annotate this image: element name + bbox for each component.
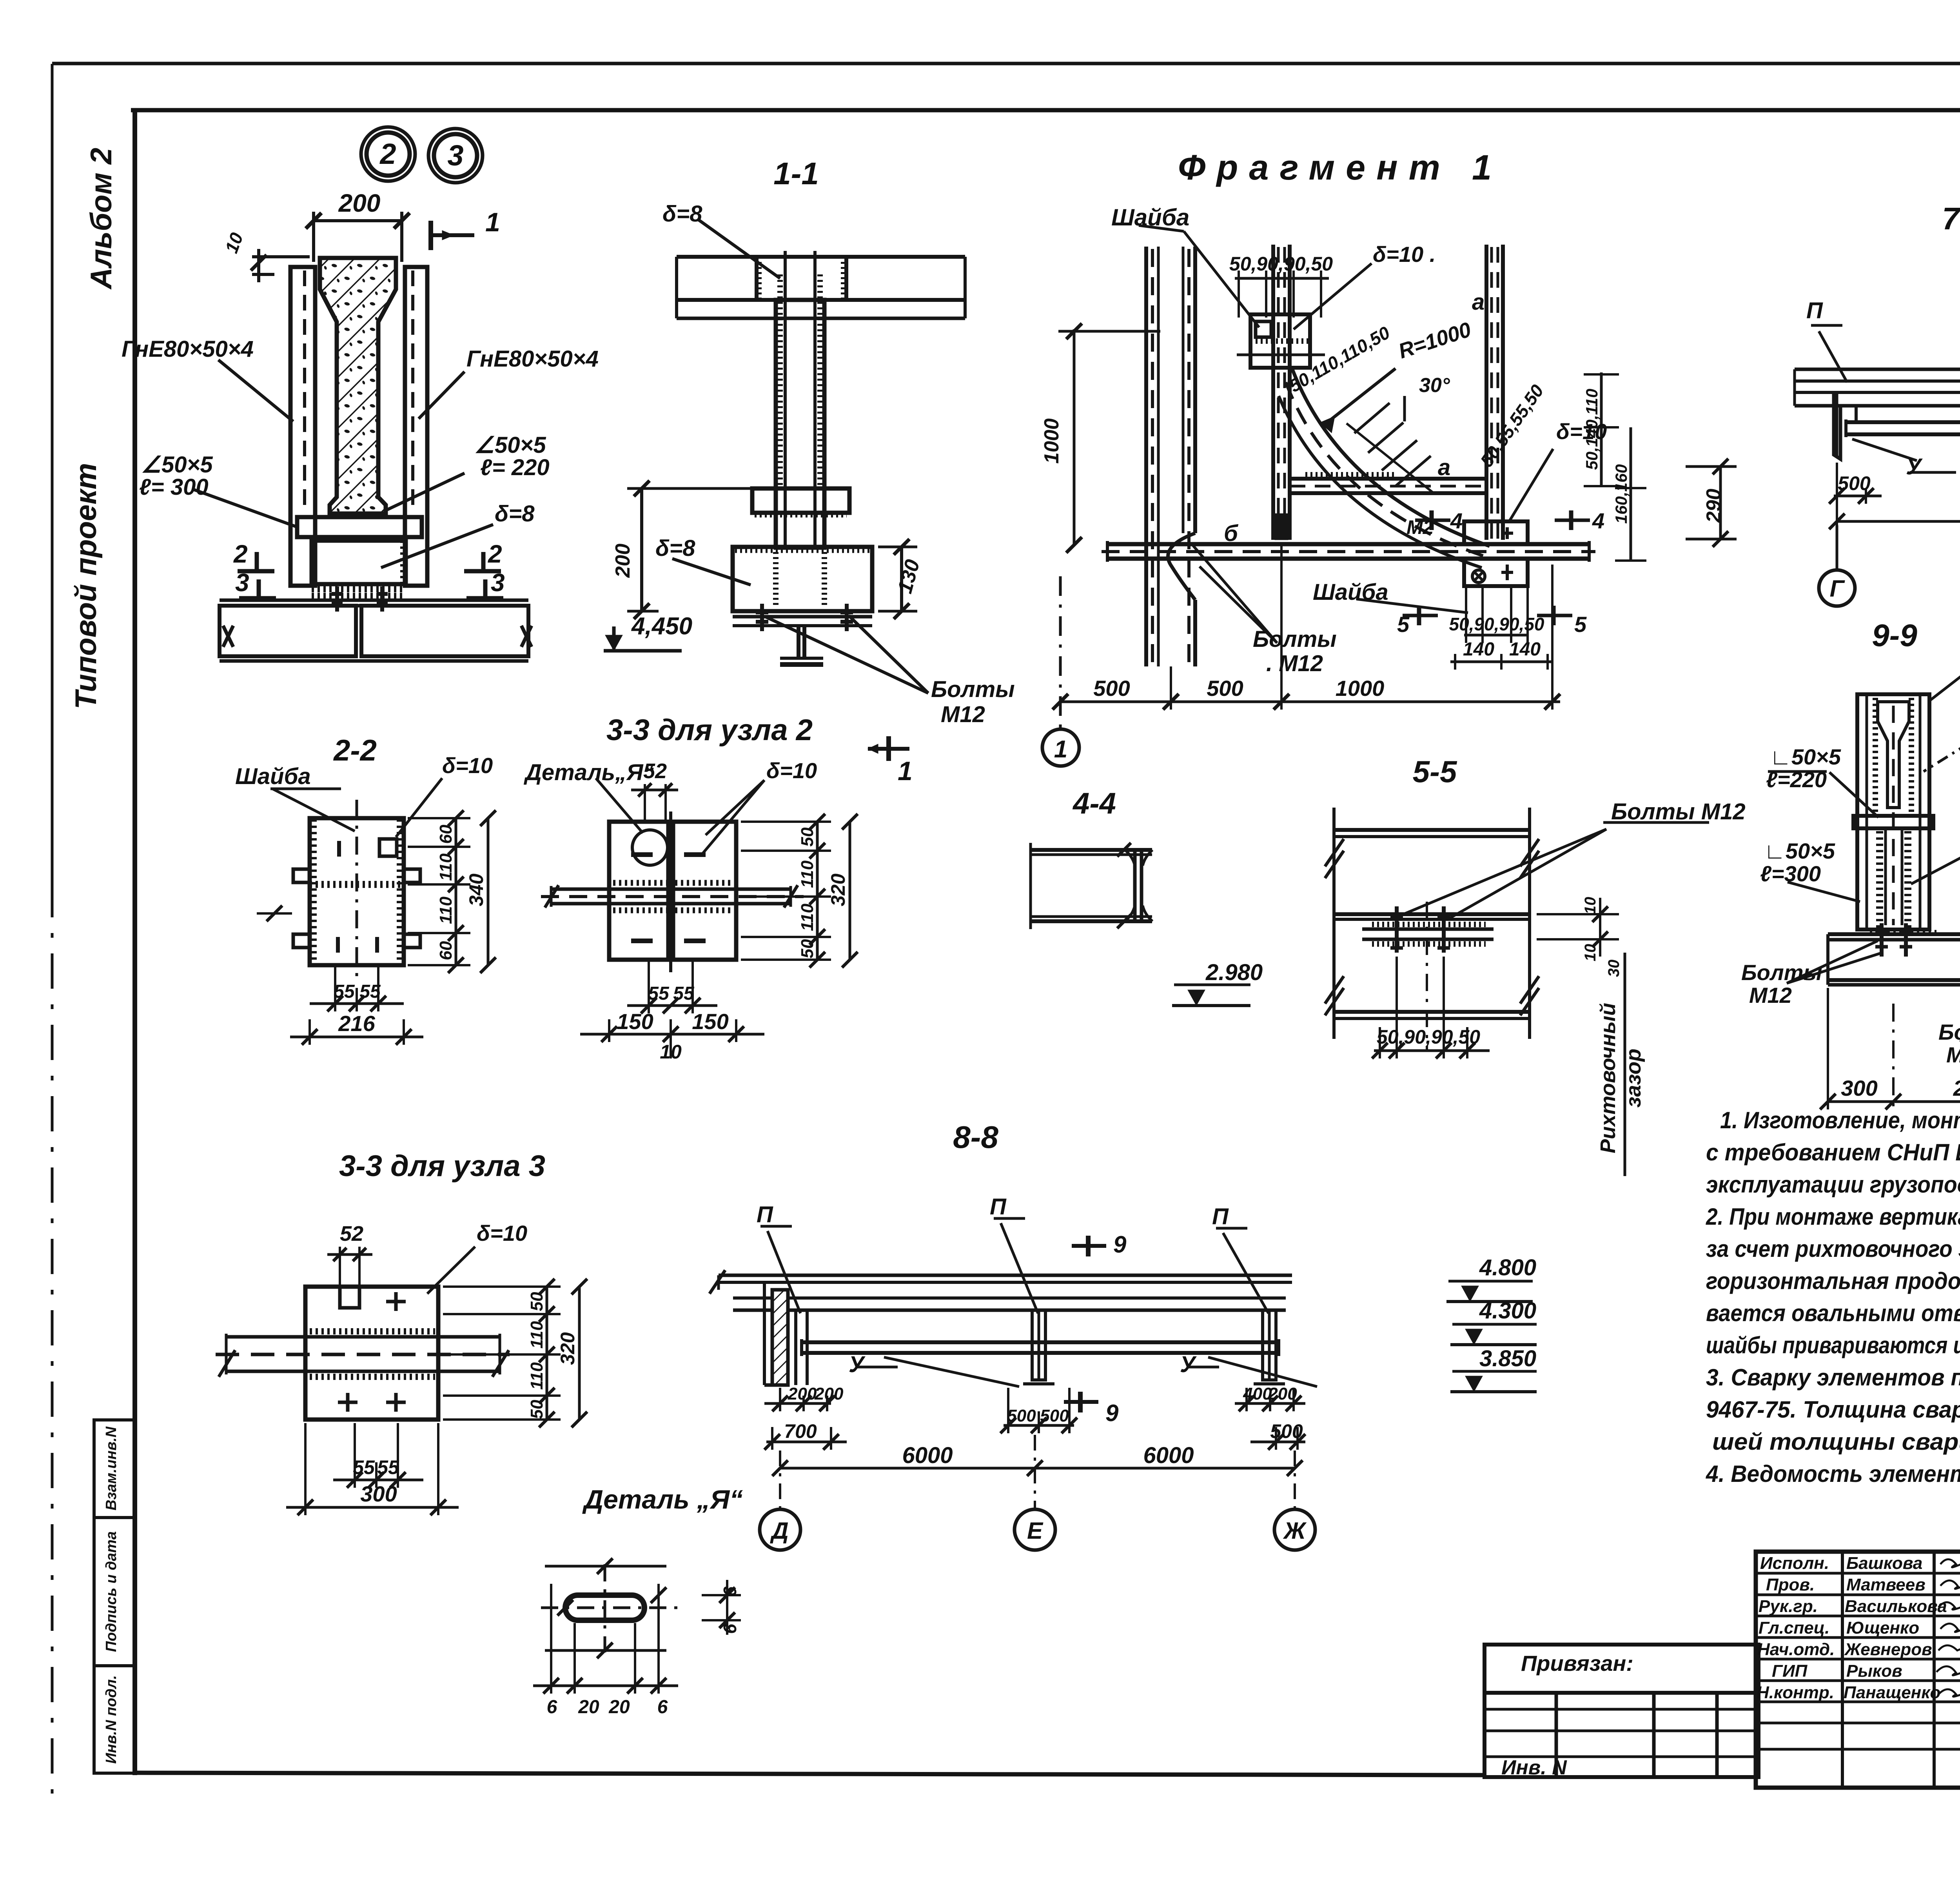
svg-text:110: 110 xyxy=(527,1321,546,1349)
svg-text:4,450: 4,450 xyxy=(631,613,692,640)
svg-text:Шайба: Шайба xyxy=(1111,204,1189,231)
svg-text:М12: М12 xyxy=(941,702,985,727)
svg-text:50: 50 xyxy=(527,1292,546,1311)
svg-text:δ=10 .: δ=10 . xyxy=(1373,242,1436,267)
svg-text:Рук.гр.: Рук.гр. xyxy=(1759,1597,1818,1616)
svg-text:5-5: 5-5 xyxy=(1413,754,1457,789)
svg-text:1000: 1000 xyxy=(1336,676,1385,701)
svg-text:6000: 6000 xyxy=(902,1443,953,1468)
svg-text:δ=10: δ=10 xyxy=(442,753,493,778)
svg-text:Исполн.: Исполн. xyxy=(1760,1554,1829,1573)
svg-text:400: 400 xyxy=(1243,1384,1272,1403)
svg-text:a: a xyxy=(1438,455,1450,480)
svg-text:55: 55 xyxy=(334,981,355,1002)
svg-text:200: 200 xyxy=(1268,1384,1297,1403)
svg-text:300: 300 xyxy=(360,1481,397,1506)
svg-text:ℓ=220: ℓ=220 xyxy=(1766,767,1827,792)
svg-text:М2: М2 xyxy=(1406,516,1434,538)
svg-text:200: 200 xyxy=(788,1384,817,1403)
svg-text:R=1000: R=1000 xyxy=(1396,318,1474,363)
svg-text:10: 10 xyxy=(660,1041,682,1063)
svg-text:1: 1 xyxy=(485,207,500,237)
svg-text:Привязан:: Привязан: xyxy=(1521,1651,1633,1676)
svg-text:500: 500 xyxy=(1007,1406,1036,1425)
svg-text:55: 55 xyxy=(353,1456,375,1478)
svg-text:шей толщины свариваемых эле: шей толщины свариваемых элементов. xyxy=(1712,1429,1960,1455)
svg-text:52: 52 xyxy=(643,759,667,783)
svg-text:горизонтальная продольная и по: горизонтальная продольная и поперечная р… xyxy=(1706,1268,1960,1294)
svg-text:60: 60 xyxy=(436,941,456,960)
svg-text:Василькова: Василькова xyxy=(1845,1597,1947,1616)
svg-text:Болты: Болты xyxy=(1741,960,1822,985)
svg-text:П: П xyxy=(1806,298,1823,323)
svg-text:50,90,90,50: 50,90,90,50 xyxy=(1377,1026,1480,1048)
svg-text:Деталь„Я“: Деталь„Я“ xyxy=(523,760,654,785)
svg-text:4.800: 4.800 xyxy=(1479,1255,1536,1280)
svg-text:зазор: зазор xyxy=(1622,1049,1645,1107)
svg-text:Пров.: Пров. xyxy=(1766,1575,1815,1594)
svg-text:30: 30 xyxy=(1605,960,1622,977)
svg-text:3.850: 3.850 xyxy=(1479,1346,1536,1371)
svg-text:М12: М12 xyxy=(1749,983,1792,1008)
svg-text:500: 500 xyxy=(1040,1406,1069,1425)
svg-text:Фрагмент 1: Фрагмент 1 xyxy=(1178,148,1492,187)
svg-text:Альбом 2: Альбом 2 xyxy=(85,148,118,290)
svg-text:320: 320 xyxy=(557,1332,579,1365)
svg-text:∟50×5: ∟50×5 xyxy=(1770,744,1841,769)
svg-text:130: 130 xyxy=(893,557,924,596)
svg-text:110: 110 xyxy=(436,853,456,881)
svg-text:110: 110 xyxy=(436,896,456,924)
svg-text:δ=10: δ=10 xyxy=(477,1221,527,1245)
svg-text:150: 150 xyxy=(692,1009,728,1034)
svg-text:6000: 6000 xyxy=(1143,1443,1194,1468)
svg-text:П: П xyxy=(1212,1204,1229,1229)
svg-text:3-3 для узла 3: 3-3 для узла 3 xyxy=(339,1149,545,1183)
svg-text:4. Ведомость элементов см. ли: 4. Ведомость элементов см. лист КМ-9. xyxy=(1706,1461,1960,1487)
svg-text:ℓ=300: ℓ=300 xyxy=(1760,861,1821,886)
svg-text:6: 6 xyxy=(720,1587,740,1597)
svg-text:У: У xyxy=(1906,454,1923,479)
svg-text:50,110,110,50: 50,110,110,50 xyxy=(1286,322,1394,396)
svg-text:1: 1 xyxy=(1054,736,1067,763)
svg-text:Башкова: Башкова xyxy=(1846,1554,1922,1573)
svg-text:Типовой проект: Типовой проект xyxy=(69,463,103,709)
svg-text:Инв. N: Инв. N xyxy=(1501,1756,1567,1779)
svg-text:∠50×5: ∠50×5 xyxy=(141,452,213,477)
svg-text:2. При монтаже вертикальная ри: 2. При монтаже вертикальная рихтовка пут… xyxy=(1706,1204,1960,1230)
svg-text:Матвеев: Матвеев xyxy=(1846,1575,1926,1594)
svg-text:110: 110 xyxy=(798,860,817,888)
svg-text:a: a xyxy=(1472,289,1485,315)
svg-text:200: 200 xyxy=(612,544,634,578)
svg-text:6: 6 xyxy=(720,1624,740,1634)
svg-text:Жевнеров: Жевнеров xyxy=(1844,1640,1932,1659)
svg-text:Взам.инв.N: Взам.инв.N xyxy=(103,1426,120,1510)
svg-text:55: 55 xyxy=(377,1456,399,1478)
svg-text:Болты М12: Болты М12 xyxy=(1611,799,1746,824)
svg-text:У: У xyxy=(1180,1352,1197,1377)
svg-text:Гл.спец.: Гл.спец. xyxy=(1759,1618,1829,1638)
svg-text:Подпись и дата: Подпись и дата xyxy=(103,1531,120,1652)
svg-text:3-3 для узла 2: 3-3 для узла 2 xyxy=(606,713,813,747)
svg-text:Д: Д xyxy=(769,1518,788,1544)
svg-text:6: 6 xyxy=(657,1697,668,1717)
svg-text:340: 340 xyxy=(465,873,487,906)
svg-text:Инв.N подл.: Инв.N подл. xyxy=(103,1675,120,1764)
svg-text:Рихтовочный: Рихтовочный xyxy=(1596,1003,1620,1153)
svg-text:δ=8: δ=8 xyxy=(655,536,695,561)
svg-text:20: 20 xyxy=(578,1697,599,1717)
svg-text:50,90,90,50: 50,90,90,50 xyxy=(1229,253,1333,275)
svg-text:∠50×5: ∠50×5 xyxy=(474,432,546,458)
svg-text:Рыков: Рыков xyxy=(1846,1661,1902,1681)
svg-text:110: 110 xyxy=(798,903,817,931)
svg-text:Шайба: Шайба xyxy=(1313,579,1388,605)
svg-text:55: 55 xyxy=(648,983,670,1004)
svg-text:60: 60 xyxy=(436,824,456,844)
svg-text:ГнЕ80×50×4: ГнЕ80×50×4 xyxy=(122,336,254,362)
svg-text:ГИП: ГИП xyxy=(1772,1661,1808,1681)
svg-text:9: 9 xyxy=(1113,1231,1127,1258)
svg-text:200: 200 xyxy=(814,1384,844,1403)
svg-text:с требованием СНиП Ш-18-75 и: с требованием СНиП Ш-18-75 и „Правил уст… xyxy=(1706,1139,1960,1166)
svg-text:М12: М12 xyxy=(1946,1042,1960,1067)
svg-text:9-9: 9-9 xyxy=(1872,618,1917,653)
svg-text:1-1: 1-1 xyxy=(773,156,819,191)
svg-text:3: 3 xyxy=(235,568,249,597)
svg-text:500: 500 xyxy=(1838,472,1871,494)
svg-text:50: 50 xyxy=(527,1400,546,1419)
svg-text:55: 55 xyxy=(673,983,695,1004)
svg-text:1: 1 xyxy=(898,756,913,786)
svg-text:300: 300 xyxy=(1841,1076,1877,1100)
svg-text:ℓ= 220: ℓ= 220 xyxy=(480,455,550,480)
svg-text:4: 4 xyxy=(1450,508,1463,533)
svg-text:Ж: Ж xyxy=(1283,1518,1307,1544)
svg-text:50: 50 xyxy=(798,827,817,846)
svg-text:10: 10 xyxy=(1582,897,1599,915)
svg-text:П: П xyxy=(757,1202,773,1227)
svg-text:У: У xyxy=(849,1352,866,1377)
svg-text:2700: 2700 xyxy=(1953,1076,1960,1100)
svg-text:2: 2 xyxy=(379,138,396,170)
svg-text:4.300: 4.300 xyxy=(1479,1298,1536,1323)
svg-text:δ=10: δ=10 xyxy=(766,758,817,783)
svg-text:Г: Г xyxy=(1830,576,1846,602)
svg-text:4-4: 4-4 xyxy=(1072,787,1116,820)
svg-text:30°: 30° xyxy=(1419,374,1450,397)
svg-text:216: 216 xyxy=(338,1011,375,1036)
svg-text:200: 200 xyxy=(338,189,381,217)
svg-text:500: 500 xyxy=(1093,676,1130,701)
svg-text:140: 140 xyxy=(1509,639,1541,660)
svg-text:шайбы привариваются и ставятся: шайбы привариваются и ставятся контргайк… xyxy=(1706,1332,1960,1358)
svg-text:2: 2 xyxy=(233,540,248,568)
svg-text:Болты: Болты xyxy=(1253,626,1337,652)
svg-text:Панащенко: Панащенко xyxy=(1844,1683,1940,1702)
svg-text:3: 3 xyxy=(447,139,463,172)
svg-text:Шайба: Шайба xyxy=(235,764,311,789)
svg-text:П: П xyxy=(990,1194,1007,1220)
svg-text:20: 20 xyxy=(608,1697,630,1717)
svg-text:1000: 1000 xyxy=(1040,418,1063,464)
svg-text:2-2: 2-2 xyxy=(333,734,377,767)
svg-text:Е: Е xyxy=(1027,1518,1044,1544)
svg-text:Деталь „Я“: Деталь „Я“ xyxy=(582,1485,743,1514)
svg-text:140: 140 xyxy=(1463,639,1494,660)
svg-text:эксплуатации грузоподъемных: эксплуатации грузоподъемных кранов“. xyxy=(1706,1171,1960,1198)
svg-text:8-8: 8-8 xyxy=(953,1120,998,1155)
svg-text:5: 5 xyxy=(1574,612,1587,637)
svg-text:. М12: . М12 xyxy=(1266,651,1323,676)
svg-text:вается овальными отверстиями.: вается овальными отверстиями. После окон… xyxy=(1706,1300,1960,1326)
svg-text:б: б xyxy=(1224,521,1239,546)
svg-text:500: 500 xyxy=(1270,1420,1303,1442)
svg-text:Н.контр.: Н.контр. xyxy=(1757,1683,1834,1702)
svg-text:55: 55 xyxy=(359,981,381,1002)
svg-text:52: 52 xyxy=(340,1222,363,1245)
svg-text:110: 110 xyxy=(527,1362,546,1390)
svg-text:500: 500 xyxy=(1207,676,1243,701)
svg-text:2.980: 2.980 xyxy=(1205,960,1263,985)
svg-text:1. Изготовление, монтаж и прие: 1. Изготовление, монтаж и приемку пути п… xyxy=(1720,1107,1960,1133)
svg-text:9: 9 xyxy=(1105,1400,1119,1426)
svg-text:Нач.отд.: Нач.отд. xyxy=(1757,1640,1835,1659)
svg-text:4: 4 xyxy=(1592,508,1604,533)
svg-text:7-7: 7-7 xyxy=(1942,201,1960,236)
svg-text:9467-75. Толщина сварных шво: 9467-75. Толщина сварных швов hшв.= 6мм,… xyxy=(1706,1396,1960,1423)
svg-text:160,160: 160,160 xyxy=(1612,464,1630,524)
svg-text:50,90,90,50: 50,90,90,50 xyxy=(1449,614,1544,634)
svg-text:δ=8: δ=8 xyxy=(662,201,702,227)
svg-text:за счет рихтовочного зазора ме: за счет рихтовочного зазора между балкой… xyxy=(1706,1236,1960,1262)
svg-text:50,140,110: 50,140,110 xyxy=(1583,389,1601,470)
svg-text:ГнЕ80×50×4: ГнЕ80×50×4 xyxy=(466,346,599,372)
svg-text:Болты: Болты xyxy=(1938,1020,1960,1044)
svg-text:3. Сварку элементов производит: 3. Сварку элементов производить электрод… xyxy=(1706,1364,1960,1391)
svg-text:2: 2 xyxy=(488,540,502,568)
svg-text:320: 320 xyxy=(827,873,849,906)
svg-text:δ=8: δ=8 xyxy=(495,501,535,526)
svg-text:3: 3 xyxy=(491,568,505,597)
svg-text:Ющенко: Ющенко xyxy=(1846,1618,1919,1638)
svg-text:10: 10 xyxy=(1582,944,1599,962)
svg-text:ℓ= 300: ℓ= 300 xyxy=(139,474,209,500)
svg-text:∟50×5: ∟50×5 xyxy=(1764,839,1835,863)
svg-text:50: 50 xyxy=(798,939,817,958)
svg-text:10: 10 xyxy=(221,230,247,256)
svg-text:700: 700 xyxy=(784,1420,817,1442)
svg-text:6: 6 xyxy=(547,1697,557,1717)
svg-text:5: 5 xyxy=(1397,612,1410,637)
svg-text:Болты: Болты xyxy=(931,677,1015,702)
svg-text:150: 150 xyxy=(617,1009,653,1034)
